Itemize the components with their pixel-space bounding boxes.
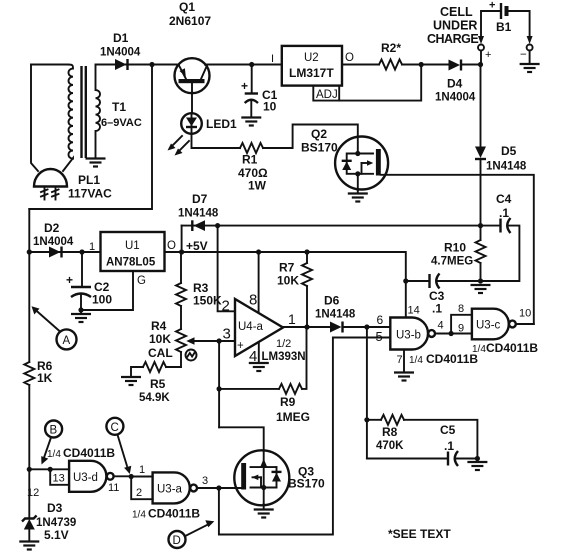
wire +5V rail xyxy=(182,249,409,317)
diode D5 xyxy=(475,147,486,160)
node D xyxy=(169,531,186,548)
svg-text:1MEG: 1MEG xyxy=(276,410,310,424)
C3 label xyxy=(429,289,445,316)
svg-text:1/4: 1/4 xyxy=(409,355,423,366)
resistor R2 xyxy=(379,60,402,70)
wire top-left rail to primary xyxy=(31,64,68,66)
resistor R3 xyxy=(176,252,186,329)
svg-text:+: + xyxy=(237,340,244,352)
svg-text:U2: U2 xyxy=(304,52,319,64)
C2 label xyxy=(92,280,112,307)
wire D4 to battery junction xyxy=(461,62,483,67)
resistor R9 xyxy=(279,327,307,394)
U4-a pin numbers xyxy=(222,292,297,366)
svg-text:.1: .1 xyxy=(432,302,442,316)
svg-text:6: 6 xyxy=(377,313,384,327)
U4-a part label xyxy=(262,351,306,363)
wire R4 wiper to U4-a pin 3 xyxy=(195,338,235,343)
svg-text:+5V: +5V xyxy=(186,239,208,253)
svg-text:1N4148: 1N4148 xyxy=(178,208,219,220)
C1 label xyxy=(262,88,278,114)
svg-text:U3-a: U3-a xyxy=(157,484,183,496)
wire U3-a input loop xyxy=(131,477,152,500)
node B arrow to rail xyxy=(41,438,51,465)
NAND gate U3-b xyxy=(390,318,435,350)
wire pin3 node down to Q3 drain xyxy=(219,427,264,451)
MOSFET Q2 xyxy=(335,137,388,191)
wire LED1 to R1 xyxy=(192,134,241,148)
svg-text:U4-a: U4-a xyxy=(238,321,264,333)
resistor R1 xyxy=(240,143,263,153)
D1 label xyxy=(100,31,141,59)
wire U3-c input loop xyxy=(451,315,472,334)
svg-text:LM317T: LM317T xyxy=(289,66,334,80)
ground C5 xyxy=(467,462,487,470)
wire U4-a output row xyxy=(283,324,330,329)
ground Q3 source xyxy=(254,504,274,518)
PL1 label xyxy=(68,173,112,201)
regulator U1 xyxy=(101,232,165,271)
svg-text:10: 10 xyxy=(519,308,531,320)
node B xyxy=(45,421,62,438)
ground B1 minus xyxy=(520,64,540,72)
svg-text:117VAC: 117VAC xyxy=(68,187,112,201)
wire B1 plus terminal with arrow xyxy=(478,11,501,65)
R10 label xyxy=(431,241,473,268)
op-amp U4-a xyxy=(235,299,291,356)
svg-text:CD4011B: CD4011B xyxy=(426,352,478,366)
wire D4 junction down to D5 xyxy=(480,65,482,147)
D5 label xyxy=(486,144,527,173)
wire D6 node down to R8 xyxy=(364,327,369,459)
D6 label xyxy=(315,294,356,321)
MOSFET Q3 xyxy=(234,450,289,505)
svg-text:U3-c: U3-c xyxy=(476,320,501,332)
capacitor C5 xyxy=(367,451,480,466)
svg-text:10K: 10K xyxy=(277,274,299,288)
wire D2 row xyxy=(27,249,101,254)
wire U1 output to +5V node xyxy=(165,249,185,254)
zener diode D3 xyxy=(22,469,37,541)
svg-text:8: 8 xyxy=(458,303,464,315)
svg-text:10: 10 xyxy=(263,100,277,114)
svg-text:−: − xyxy=(520,49,527,61)
svg-text:R1: R1 xyxy=(242,153,258,167)
svg-text:D6: D6 xyxy=(324,294,340,308)
svg-text:D3: D3 xyxy=(47,501,63,515)
D4 label xyxy=(435,77,476,104)
wire U3-a output to Q3 gate xyxy=(197,485,241,490)
svg-text:54.9K: 54.9K xyxy=(139,392,170,404)
svg-text:1N4004: 1N4004 xyxy=(100,47,141,59)
svg-text:G: G xyxy=(137,275,146,287)
svg-text:B: B xyxy=(50,425,58,437)
capacitor C1 xyxy=(241,65,258,118)
transformer T1 primary winding xyxy=(63,65,73,172)
svg-text:C5: C5 xyxy=(440,423,456,437)
resistor R6 xyxy=(24,362,34,469)
svg-text:Q2: Q2 xyxy=(311,127,327,141)
wire U3-b output to U3-c inputs xyxy=(435,331,454,336)
svg-text:1N4004: 1N4004 xyxy=(33,236,74,248)
wire U2 output to R2 xyxy=(342,64,379,66)
plug PL1 xyxy=(34,169,67,200)
R4 wiper node symbol xyxy=(186,350,197,361)
C4 label xyxy=(496,192,512,220)
wire D6 to U3-b pin 6 xyxy=(343,324,391,329)
svg-text:O: O xyxy=(167,240,176,252)
wire R9 feedback xyxy=(217,341,280,427)
svg-text:PL1: PL1 xyxy=(78,173,100,187)
Q2 label xyxy=(301,127,338,155)
R5 label xyxy=(139,377,170,404)
svg-text:R10: R10 xyxy=(444,241,466,255)
svg-text:3: 3 xyxy=(223,326,231,343)
svg-text:2: 2 xyxy=(222,298,230,315)
diode D4 xyxy=(449,60,462,71)
wire D7 anode down to U4-a pin 2 xyxy=(218,226,235,312)
NAND gate U3-d xyxy=(69,461,114,492)
D3 label xyxy=(36,501,76,542)
resistor R4 potentiometer xyxy=(176,329,198,367)
LED1 label xyxy=(206,117,237,131)
transformer T1 secondary winding xyxy=(96,65,101,158)
svg-text:9: 9 xyxy=(458,323,464,335)
transformer T1 core xyxy=(82,66,86,158)
svg-text:3: 3 xyxy=(202,475,208,487)
Q3 label xyxy=(288,465,325,491)
svg-text:BS170: BS170 xyxy=(301,141,338,155)
Q1 label xyxy=(169,0,211,28)
svg-text:5: 5 xyxy=(376,329,383,344)
svg-text:BS170: BS170 xyxy=(288,477,325,491)
wire U3-c output xyxy=(516,323,534,325)
svg-text:B1: B1 xyxy=(496,20,512,34)
ground R10/C3 xyxy=(471,285,491,293)
wire U3-b pin 7 to ground xyxy=(394,350,414,381)
wire feedback: D1 junction down and left to left rail xyxy=(29,65,152,210)
wire Q1 base to LED1 xyxy=(191,93,193,113)
capacitor C2 xyxy=(66,252,91,314)
ground R5 xyxy=(121,377,141,385)
U2 pin labels xyxy=(271,52,354,65)
wire D7 rail xyxy=(182,223,481,228)
svg-text:+: + xyxy=(485,49,491,61)
R2 label xyxy=(381,41,401,55)
svg-text:.1: .1 xyxy=(499,206,509,220)
ground D3 xyxy=(19,542,39,550)
svg-text:U1: U1 xyxy=(125,240,140,252)
svg-text:R5: R5 xyxy=(150,377,166,391)
svg-text:CD4011B: CD4011B xyxy=(486,341,538,355)
svg-text:C4: C4 xyxy=(496,192,512,206)
C5 label xyxy=(440,423,456,453)
wire node D path to U3-b pin 5 xyxy=(219,338,390,535)
capacitor C3 xyxy=(406,274,481,289)
svg-text:UNDER: UNDER xyxy=(433,19,477,33)
svg-text:D2: D2 xyxy=(44,221,60,235)
U2 ADJ box xyxy=(313,65,421,102)
wire Q2 gate to U3-c output xyxy=(381,175,534,324)
U3-c pin numbers xyxy=(458,303,531,335)
svg-text:I: I xyxy=(271,53,274,65)
battery B1 xyxy=(489,0,512,34)
wire U1 G pin to C2 ground xyxy=(78,271,133,313)
svg-text:CELL: CELL xyxy=(440,5,473,19)
svg-text:7: 7 xyxy=(397,354,403,366)
svg-text:1N4004: 1N4004 xyxy=(435,92,476,104)
svg-text:D7: D7 xyxy=(192,192,208,206)
wire U3-d output to node C junction xyxy=(114,474,134,479)
R1 label xyxy=(238,153,268,193)
svg-text:100: 100 xyxy=(92,293,112,307)
NAND gate U3-a xyxy=(153,472,197,503)
svg-text:LM393N: LM393N xyxy=(262,351,306,363)
svg-text:U3-d: U3-d xyxy=(73,472,98,484)
ground C2 xyxy=(71,314,91,322)
svg-text:R8: R8 xyxy=(382,425,398,439)
svg-text:O: O xyxy=(345,52,354,64)
U3-a part label xyxy=(132,507,200,521)
node A xyxy=(57,329,77,349)
svg-text:10K: 10K xyxy=(149,332,171,346)
svg-text:R9: R9 xyxy=(280,395,296,409)
svg-text:1N4148: 1N4148 xyxy=(486,161,527,173)
node A arrow to left rail xyxy=(32,306,61,331)
svg-text:14: 14 xyxy=(408,305,420,317)
svg-text:1: 1 xyxy=(288,311,296,327)
wire D1 junction to Q1 xyxy=(152,64,179,66)
diode D2 xyxy=(49,247,62,258)
svg-text:11: 11 xyxy=(108,482,119,494)
svg-text:CAL: CAL xyxy=(148,346,173,360)
svg-text:+: + xyxy=(66,273,73,287)
svg-text:CD4011B: CD4011B xyxy=(148,507,200,521)
resistor R8 xyxy=(367,415,478,459)
svg-text:150K: 150K xyxy=(193,294,222,308)
ground T1 secondary xyxy=(86,159,106,167)
wire U3-d input row xyxy=(27,467,69,472)
node C arrow to junction xyxy=(118,435,132,474)
svg-text:AN78L05: AN78L05 xyxy=(106,257,156,269)
resistor R10 xyxy=(476,226,486,284)
resistor R5 xyxy=(131,362,181,377)
svg-text:+: + xyxy=(489,0,495,12)
wire Q1 collector to U2 xyxy=(205,64,282,66)
svg-text:.1: .1 xyxy=(444,439,454,453)
R8 label xyxy=(376,425,404,452)
D7 label xyxy=(178,192,219,220)
wire R2 to D4 xyxy=(402,62,449,67)
svg-text:R2*: R2* xyxy=(381,41,401,55)
wire D5 to rail xyxy=(478,159,483,228)
LED1 xyxy=(181,113,202,134)
node C xyxy=(106,418,123,435)
svg-text:CHARGE: CHARGE xyxy=(427,32,478,46)
svg-text:Q1: Q1 xyxy=(179,0,195,14)
svg-text:*SEE TEXT: *SEE TEXT xyxy=(388,527,451,541)
R4 label xyxy=(148,319,173,360)
transistor Q1 xyxy=(175,58,210,93)
capacitor C4 xyxy=(481,218,520,281)
svg-text:1/4: 1/4 xyxy=(47,449,61,460)
R9 label xyxy=(276,395,310,424)
node junction after D1 xyxy=(149,62,154,67)
wire U3-d input loop xyxy=(50,469,69,485)
svg-text:1: 1 xyxy=(89,241,95,253)
U3-d pin numbers xyxy=(27,473,119,500)
U3-b part label xyxy=(409,352,478,366)
wire left drop to plug xyxy=(31,65,38,172)
svg-text:D4: D4 xyxy=(447,77,463,91)
svg-text:1K: 1K xyxy=(37,371,53,385)
svg-text:1W: 1W xyxy=(248,179,267,193)
svg-text:ADJ: ADJ xyxy=(316,89,338,101)
svg-text:D: D xyxy=(173,535,181,547)
svg-text:R7: R7 xyxy=(279,261,295,275)
svg-text:CD4011B: CD4011B xyxy=(63,446,115,460)
svg-text:C: C xyxy=(111,422,119,434)
R7 label xyxy=(277,261,299,288)
svg-text:2N6107: 2N6107 xyxy=(169,14,211,28)
wire R1 to Q2 drain xyxy=(263,125,358,149)
wire left rail down full height xyxy=(28,209,30,362)
ground C1 xyxy=(241,118,261,126)
svg-text:D1: D1 xyxy=(113,31,129,45)
SEE TEXT note xyxy=(388,527,451,541)
svg-text:U3-b: U3-b xyxy=(396,330,421,342)
diode D7 xyxy=(192,220,205,231)
svg-text:1/4: 1/4 xyxy=(132,510,146,521)
svg-text:8: 8 xyxy=(249,292,257,309)
T1 label xyxy=(101,100,142,129)
svg-text:D5: D5 xyxy=(501,144,517,158)
diode D1 xyxy=(115,59,128,70)
svg-text:1/2: 1/2 xyxy=(276,338,291,350)
resistor R7 xyxy=(302,252,312,327)
node D arrow to wire xyxy=(185,520,214,536)
+5V label xyxy=(186,239,208,253)
svg-text:1/4: 1/4 xyxy=(472,344,486,355)
svg-text:+: + xyxy=(241,79,248,93)
svg-text:6–9VAC: 6–9VAC xyxy=(101,117,142,129)
CELL UNDER CHARGE label xyxy=(427,5,478,46)
wire +5V node up to D7 rail xyxy=(181,226,183,252)
diode D6 xyxy=(330,322,343,333)
NAND gate U3-c xyxy=(472,309,516,340)
R3 label xyxy=(193,281,222,308)
svg-text:4.7MEG: 4.7MEG xyxy=(431,256,473,268)
ground Q2 source xyxy=(348,189,368,202)
svg-text:470K: 470K xyxy=(376,440,404,452)
capacitor C1 junction xyxy=(249,62,254,67)
U3-a pin numbers xyxy=(136,464,208,499)
wire U4-a pin 8 from +5V rail xyxy=(258,252,260,312)
regulator U2 xyxy=(282,46,342,86)
svg-text:A: A xyxy=(63,335,71,347)
U3-d part label xyxy=(47,446,115,460)
svg-text:5.1V: 5.1V xyxy=(44,528,69,542)
svg-text:T1: T1 xyxy=(112,100,126,114)
svg-text:1: 1 xyxy=(139,464,145,476)
svg-text:LED1: LED1 xyxy=(206,117,237,131)
U3-c part label xyxy=(472,341,538,355)
R6 label xyxy=(37,359,53,385)
svg-text:2: 2 xyxy=(136,487,142,499)
U1 pin labels xyxy=(89,240,176,287)
svg-text:13: 13 xyxy=(53,473,65,485)
D2 label xyxy=(33,221,74,248)
wire U4-a pin 4 to ground xyxy=(249,342,269,371)
wire secondary top rail to D1 xyxy=(96,64,153,66)
LED1 light arrows xyxy=(168,136,190,156)
svg-text:4: 4 xyxy=(438,320,444,332)
svg-text:R4: R4 xyxy=(151,319,167,333)
svg-text:1N4148: 1N4148 xyxy=(315,309,356,321)
U3-b pin numbers xyxy=(375,305,444,367)
wire B1 minus terminal with arrow xyxy=(509,11,533,64)
